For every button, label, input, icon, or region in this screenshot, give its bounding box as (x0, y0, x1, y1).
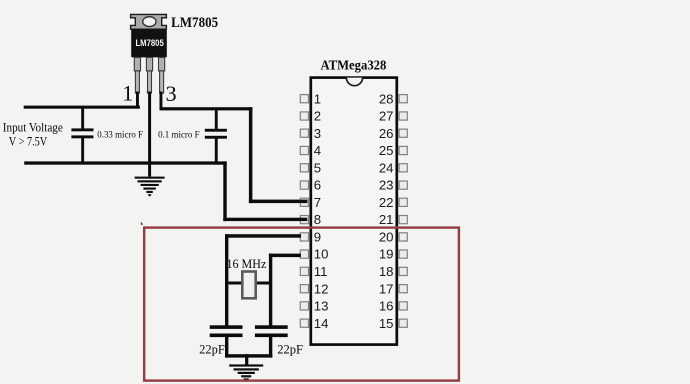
svg-text:LM7805: LM7805 (171, 15, 218, 31)
wire: regulator pin3 stub (160, 92, 163, 109)
crystal Y1 (16 MHz) (228, 272, 269, 299)
svg-text:0.1 micro F: 0.1 micro F (158, 130, 200, 141)
svg-text:22pF: 22pF (199, 342, 225, 356)
wire: crystal right vertical (269, 254, 272, 326)
pin 21 (pad and number) (379, 212, 407, 227)
pin 18 (pad and number) (379, 264, 407, 279)
svg-text:2: 2 (314, 109, 321, 124)
capacitor C4 (22pF, right) (255, 325, 288, 357)
pin 22 (pad and number) (379, 195, 407, 210)
pin 8 (pad and number) (300, 212, 321, 227)
wire: run into pin 9 (XTAL1) (225, 234, 301, 238)
pin 25 (pad and number) (379, 143, 407, 158)
capacitor C3 (22pF, left) (210, 325, 243, 357)
voltage regulator U1 (LM7805, TO-220 package) (131, 14, 167, 93)
svg-text:19: 19 (379, 247, 394, 262)
svg-text:3: 3 (314, 126, 321, 141)
svg-text:1: 1 (122, 81, 133, 106)
wire: input top rail (24, 106, 140, 109)
pin 9 (pad and number) (300, 230, 321, 245)
wire: input bottom (ground) rail (24, 161, 227, 164)
svg-text:16 MHz: 16 MHz (227, 257, 267, 271)
capacitor C1 (0.33 micro F) (71, 108, 93, 163)
wire: regulator pin1 stub (136, 92, 139, 108)
capacitor C2 (0.1 micro F) (205, 108, 227, 162)
pin 16 (pad and number) (379, 299, 407, 314)
svg-text:4: 4 (314, 143, 321, 158)
svg-text:10: 10 (314, 247, 329, 262)
svg-text:24: 24 (379, 160, 394, 175)
svg-text:0.33 micro F: 0.33 micro F (97, 130, 143, 141)
svg-text:22: 22 (379, 195, 394, 210)
highlight annotation box (red rectangle around crystal circuit) (144, 228, 459, 381)
svg-text:LM7805: LM7805 (135, 38, 163, 48)
pin 7 (pad and number) (300, 195, 321, 210)
svg-text:15: 15 (379, 316, 394, 331)
pin 4 (pad and number) (300, 143, 321, 158)
svg-text:23: 23 (379, 178, 394, 193)
wire: ground stub below caps (245, 354, 248, 365)
svg-text:V > 7.5V: V > 7.5V (9, 135, 48, 149)
pin 27 (pad and number) (379, 109, 407, 124)
pin 24 (pad and number) (379, 160, 407, 175)
wire: +5V output horizontal run (160, 107, 253, 110)
svg-text:17: 17 (379, 281, 394, 296)
pin 6 (pad and number) (300, 178, 321, 193)
svg-text:11: 11 (314, 264, 328, 279)
pin 14 (pad and number) (300, 316, 328, 331)
pin 2 (pad and number) (300, 109, 321, 124)
pin 23 (pad and number) (379, 178, 407, 193)
wire: crystal left vertical (225, 234, 228, 326)
svg-text:14: 14 (314, 316, 329, 331)
svg-text:3: 3 (166, 81, 177, 106)
svg-text:1: 1 (314, 91, 321, 106)
pin 1 (pad and number) (300, 91, 321, 106)
wire: run into pin 8 (GND) (223, 218, 307, 221)
pin 10 (pad and number) (300, 247, 328, 262)
svg-text:6: 6 (314, 178, 321, 193)
wire: crystal caps bottom rail (225, 354, 272, 357)
svg-text:27: 27 (379, 109, 394, 124)
svg-text:ATMega328: ATMega328 (320, 57, 386, 72)
svg-text:21: 21 (379, 212, 394, 227)
svg-text:28: 28 (379, 91, 394, 106)
wire: run into pin 7 (VCC) (249, 200, 308, 204)
pin 19 (pad and number) (379, 247, 407, 262)
wire: run into pin 10 (XTAL2) (269, 254, 301, 258)
pin 5 (pad and number) (300, 160, 321, 175)
svg-text:22pF: 22pF (277, 342, 303, 356)
svg-text:5: 5 (314, 160, 321, 175)
pin 17 (pad and number) (379, 281, 407, 296)
pin 3 (pad and number) (300, 126, 321, 141)
svg-text:18: 18 (379, 264, 394, 279)
pin 11 (pad and number) (300, 264, 327, 279)
wire: ground vertical drop (223, 161, 226, 221)
svg-text:Input Voltage: Input Voltage (3, 121, 63, 135)
ground GND2 (below crystal caps) (229, 364, 263, 382)
svg-text:12: 12 (314, 281, 329, 296)
svg-text:8: 8 (314, 212, 321, 227)
pin 15 (pad and number) (379, 316, 407, 331)
stray cursor artifact mark (141, 222, 143, 225)
svg-text:25: 25 (379, 143, 394, 158)
svg-text:9: 9 (314, 230, 321, 245)
pin 12 (pad and number) (300, 281, 328, 296)
svg-text:7: 7 (314, 195, 321, 210)
ground GND1 (below regulator) (135, 177, 165, 197)
wire: regulator pin2 down to ground (148, 92, 151, 177)
svg-text:16: 16 (379, 299, 394, 314)
svg-text:20: 20 (379, 230, 394, 245)
pin 26 (pad and number) (379, 126, 407, 141)
IC U2 ATMega328 (DIP-28 body) (311, 78, 397, 345)
svg-text:13: 13 (314, 299, 329, 314)
pin 13 (pad and number) (300, 299, 328, 314)
wire: +5V vertical drop to VCC (249, 107, 253, 203)
pin 28 (pad and number) (379, 91, 407, 106)
svg-text:26: 26 (379, 126, 394, 141)
pin 20 (pad and number) (379, 230, 407, 245)
